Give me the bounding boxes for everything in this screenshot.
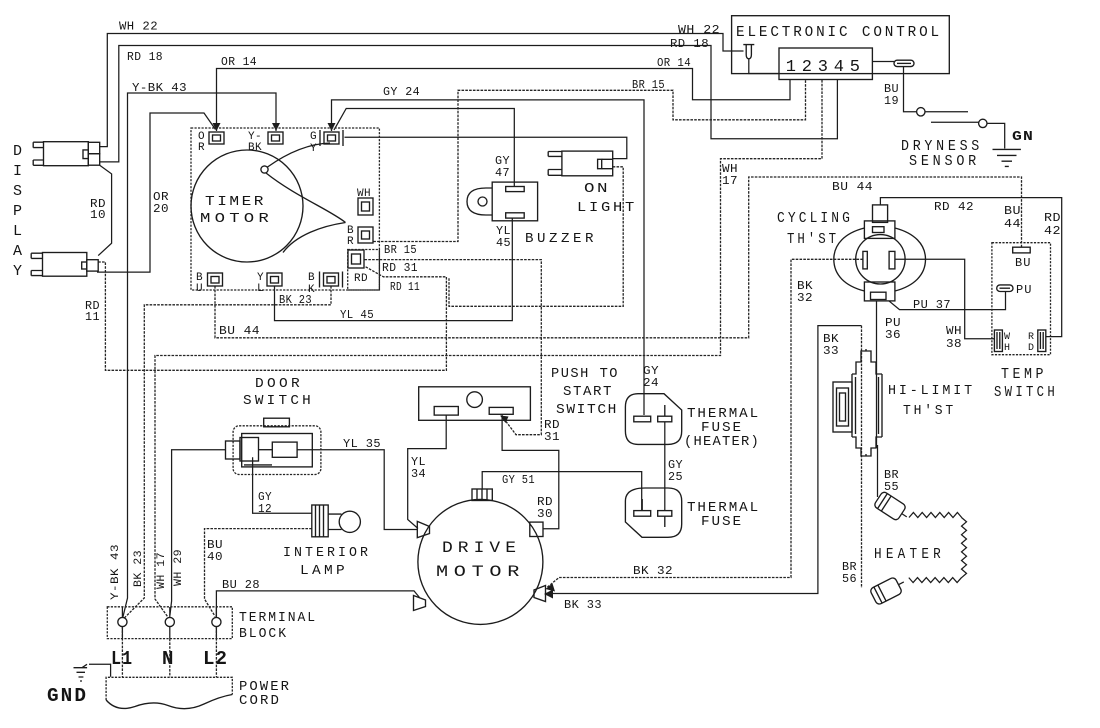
svg-text:RD 18: RD 18: [127, 51, 163, 64]
timer cam pivot: [261, 166, 268, 173]
door switch internal lever: [244, 464, 272, 466]
svg-text:R: R: [198, 142, 205, 154]
ground symbol GN: [993, 149, 1021, 166]
terminal L2 screw: [212, 617, 221, 626]
svg-text:SENSOR: SENSOR: [909, 153, 980, 170]
svg-text:TH'ST: TH'ST: [903, 403, 956, 419]
svg-text:24: 24: [643, 377, 659, 390]
wire BK33 drive motor to heater circuit: [546, 326, 862, 594]
svg-text:R: R: [347, 236, 354, 248]
wire OR14 timer O-R to electronic control terminal 1: [217, 69, 791, 132]
heater terminal cone lower BR56: [869, 574, 907, 605]
thermal fuse right terminal: [658, 511, 672, 517]
push-to-start left terminal: [434, 407, 458, 416]
wire YL35 door switch to drive motor: [297, 450, 417, 530]
wire PU36 cycling thermostat to hi-limit: [876, 301, 878, 448]
svg-text:DRIVE: DRIVE: [442, 539, 521, 557]
svg-text:TH'ST: TH'ST: [787, 231, 839, 248]
svg-text:DOOR: DOOR: [255, 376, 303, 392]
buzzer bell dome: [467, 188, 492, 215]
svg-text:4: 4: [834, 58, 845, 77]
svg-text:WH 22: WH 22: [678, 24, 720, 37]
temp switch BU terminal: [1013, 247, 1030, 253]
wire N to power cord: [169, 639, 171, 678]
wire BR55 hi-limit to heater: [877, 445, 879, 497]
svg-text:Y-BK 43: Y-BK 43: [132, 82, 187, 95]
svg-text:HI-LIMIT: HI-LIMIT: [888, 383, 975, 399]
wire RD42 cycling thermostat to temp switch: [880, 198, 1061, 337]
terminal block box: [107, 607, 232, 639]
svg-text:N: N: [162, 648, 173, 670]
thermal fuse body: [625, 488, 681, 537]
svg-text:HEATER: HEATER: [874, 546, 945, 563]
svg-text:YL 45: YL 45: [340, 309, 374, 322]
svg-text:BU: BU: [1004, 205, 1021, 218]
wire OR20 display to timer O-R terminal: [97, 113, 216, 272]
display connector lower: [43, 253, 87, 277]
svg-text:GY 51: GY 51: [502, 474, 535, 487]
svg-text:1: 1: [786, 58, 797, 77]
terminal L1 screw: [118, 617, 127, 626]
wire BU44 timer B-U to temp switch: [215, 177, 1022, 338]
svg-text:WH: WH: [357, 188, 371, 200]
push-to-start button circle: [467, 392, 483, 408]
door switch top tab: [264, 418, 290, 427]
temp switch RD terminal: [1038, 330, 1046, 352]
svg-text:THERMAL: THERMAL: [687, 501, 760, 516]
wire WH22 display to electronic control: [100, 34, 744, 147]
wire BU28 terminal block L2 to drive motor: [216, 591, 419, 617]
wire BK32 cycling thermostat to drive motor: [547, 259, 863, 587]
svg-text:INTERIOR: INTERIOR: [283, 545, 371, 561]
timer terminal RD: [348, 250, 364, 268]
svg-text:LIGHT: LIGHT: [577, 200, 637, 216]
wire BR15 timer B-R to electronic control terminal 2: [373, 80, 805, 242]
svg-text:12: 12: [258, 503, 272, 516]
wire YL34 push-to-start to drive motor: [408, 415, 447, 528]
svg-text:L2: L2: [203, 648, 228, 670]
terminal N screw: [165, 617, 174, 626]
svg-text:H: H: [1004, 343, 1010, 354]
wire GY12 door switch to interior lamp: [253, 457, 312, 513]
svg-text:2: 2: [802, 58, 813, 77]
wire BR56 heater to junction: [861, 326, 863, 588]
svg-text:BK 32: BK 32: [633, 565, 673, 578]
svg-text:19: 19: [884, 95, 899, 108]
thermal fuse heater left terminal: [634, 416, 651, 422]
svg-text:CORD: CORD: [239, 694, 281, 709]
buzzer mount hole: [478, 197, 487, 206]
svg-text:TIMER: TIMER: [205, 194, 266, 210]
cycling thermostat left contact bar: [863, 251, 867, 269]
svg-text:CYCLING: CYCLING: [777, 210, 853, 227]
svg-text:W: W: [1004, 332, 1010, 343]
arrow into Y-BK terminal: [272, 123, 280, 131]
svg-text:25: 25: [668, 471, 683, 484]
wire BU40 interior lamp to terminal block L2: [205, 529, 312, 617]
svg-text:P: P: [13, 203, 22, 220]
svg-text:33: 33: [823, 345, 839, 358]
svg-text:PU 37: PU 37: [913, 299, 951, 312]
svg-text:FUSE: FUSE: [701, 421, 743, 436]
timer terminal B-U: [208, 273, 223, 286]
svg-text:42: 42: [1044, 225, 1061, 238]
terminal lug to dryness sensor: [872, 61, 894, 63]
thermal fuse heater right terminal: [658, 416, 672, 422]
svg-text:38: 38: [946, 338, 962, 351]
svg-text:L: L: [13, 223, 22, 240]
cycling thermostat bottom housing: [864, 282, 895, 301]
arrow BK32 into motor: [546, 584, 556, 592]
arrow RD31 into push-to-start: [500, 416, 509, 424]
display connector upper pin block: [88, 142, 99, 153]
svg-text:OR 14: OR 14: [657, 57, 691, 70]
wire GY51 drive motor to thermal fuse: [482, 472, 642, 511]
door switch outer housing: [233, 426, 321, 475]
svg-text:FUSE: FUSE: [701, 515, 743, 530]
svg-text:SWITCH: SWITCH: [556, 403, 618, 418]
svg-text:BK 23: BK 23: [133, 550, 145, 587]
svg-text:PUSH TO: PUSH TO: [551, 367, 619, 382]
svg-text:TEMP: TEMP: [1001, 366, 1047, 383]
timer cam curves: [268, 143, 331, 167]
drive motor left upper terminal YL: [417, 521, 429, 537]
svg-text:BU 28: BU 28: [222, 579, 260, 592]
temp switch WH terminal: [994, 330, 1002, 352]
svg-text:MOTOR: MOTOR: [200, 211, 273, 227]
svg-text:R: R: [1028, 332, 1034, 343]
hi-limit thermostat body steps: [852, 349, 882, 456]
wire RD10 between display connectors: [98, 165, 111, 255]
wire L2 to power cord: [215, 627, 217, 678]
svg-text:U: U: [196, 283, 203, 295]
svg-text:11: 11: [85, 311, 100, 324]
svg-text:D: D: [1028, 343, 1034, 354]
svg-text:44: 44: [1004, 218, 1021, 231]
svg-text:I: I: [13, 163, 22, 180]
svg-text:36: 36: [885, 329, 901, 342]
svg-text:ON: ON: [584, 181, 610, 197]
svg-text:32: 32: [797, 292, 813, 305]
svg-text:GY 24: GY 24: [383, 86, 420, 99]
interior lamp neck: [328, 514, 341, 529]
arrow BK33 into motor: [544, 590, 553, 599]
wire dryness sensor to ground: [987, 123, 1005, 148]
svg-text:(HEATER): (HEATER): [684, 435, 760, 450]
svg-text:POWER: POWER: [239, 680, 291, 695]
temp switch box: [992, 243, 1051, 355]
heater element zigzag: [909, 513, 967, 583]
timer terminal Y-BK: [268, 132, 283, 144]
svg-text:BK: BK: [248, 142, 262, 154]
dryness sensor moving contact line: [931, 121, 979, 123]
wire RD11 display to timer RD terminal: [98, 262, 446, 370]
svg-text:WH: WH: [946, 325, 962, 338]
wire RD11 branch to on-light: [449, 167, 623, 306]
temp switch PU terminal: [997, 285, 1013, 292]
power cord body: [106, 677, 232, 700]
svg-text:10: 10: [90, 209, 106, 222]
thermal fuse left terminal: [634, 511, 651, 517]
svg-text:OR 14: OR 14: [221, 56, 257, 69]
timer terminal G-Y: [324, 132, 339, 144]
on light right pin: [598, 159, 602, 168]
fuse symbol on WH22 input: [743, 45, 754, 59]
svg-text:RD 31: RD 31: [382, 262, 418, 275]
wire WH38 cycling thermostat to temp switch: [895, 259, 995, 338]
svg-text:RD 11: RD 11: [390, 281, 420, 294]
svg-text:3: 3: [818, 58, 829, 77]
wire GY47 timer G-Y to buzzer: [334, 109, 514, 187]
on light body: [562, 151, 613, 176]
interior lamp base: [312, 505, 328, 537]
ground symbol GND: [74, 668, 88, 681]
timer terminal B-R: [358, 227, 373, 243]
svg-text:WH 29: WH 29: [173, 549, 185, 586]
svg-text:S: S: [13, 183, 22, 200]
timer terminal O-R: [209, 132, 224, 144]
arrow into O-R terminal: [213, 123, 221, 131]
svg-text:D: D: [13, 143, 22, 160]
wire RD18 display to electronic control terminal 4: [100, 46, 838, 162]
push-to-start right terminal: [489, 407, 513, 414]
svg-text:Y: Y: [13, 263, 22, 280]
drive motor circle: [418, 499, 543, 624]
svg-text:START: START: [563, 385, 613, 400]
svg-text:47: 47: [495, 167, 510, 180]
hi-limit thermostat heat sink plates: [833, 382, 852, 432]
svg-text:BR 15: BR 15: [632, 79, 665, 92]
cycling thermostat top housing: [864, 221, 895, 239]
dryness sensor contact 2: [979, 119, 987, 127]
svg-text:5: 5: [850, 58, 861, 77]
buzzer terminal YL45: [506, 213, 525, 218]
svg-text:L: L: [257, 283, 264, 295]
svg-text:WH 17: WH 17: [156, 552, 168, 589]
svg-text:34: 34: [411, 468, 426, 481]
thermal fuse heater body: [625, 394, 681, 445]
display connector upper: [44, 142, 89, 166]
svg-text:SWITCH: SWITCH: [243, 393, 314, 409]
heater terminal cone upper BR55: [873, 491, 911, 525]
svg-text:RD: RD: [1044, 212, 1061, 225]
timer terminal WH: [358, 198, 373, 215]
timer box: [191, 128, 379, 290]
drive motor left lower terminal BU28: [414, 596, 426, 611]
svg-text:A: A: [13, 243, 22, 260]
svg-text:YL 35: YL 35: [343, 438, 381, 451]
door switch plunger inner: [240, 438, 259, 462]
svg-text:GN: GN: [1012, 129, 1034, 145]
door switch inner body: [242, 434, 313, 467]
door switch contact block: [272, 442, 297, 457]
svg-text:LAMP: LAMP: [300, 563, 348, 579]
wire BU19 electronic control to dryness sensor: [904, 67, 917, 112]
svg-text:RD 42: RD 42: [934, 201, 974, 214]
wire L1 to power cord: [121, 627, 123, 678]
wire RD30 push-to-start to drive motor: [502, 414, 559, 528]
wire WH17 electronic control terminal 3 to terminal block N: [155, 80, 822, 618]
cycling thermostat disc: [856, 235, 905, 284]
svg-text:TERMINAL: TERMINAL: [239, 611, 317, 626]
svg-text:30: 30: [537, 508, 553, 521]
svg-text:THERMAL: THERMAL: [687, 407, 760, 422]
svg-text:MOTOR: MOTOR: [436, 563, 525, 581]
power cord wavy end: [106, 695, 232, 709]
svg-text:SWITCH: SWITCH: [994, 384, 1058, 401]
svg-text:ELECTRONIC CONTROL: ELECTRONIC CONTROL: [736, 24, 942, 41]
electronic control terminal strip 1 2 3 4 5: [779, 48, 872, 80]
svg-text:20: 20: [153, 203, 169, 216]
svg-text:BLOCK: BLOCK: [239, 627, 288, 642]
dryness sensor fixed contact line: [925, 111, 968, 113]
svg-text:BU: BU: [1015, 256, 1031, 270]
cycling thermostat right contact bar: [889, 251, 895, 269]
display connector lower pin block: [87, 260, 98, 271]
drive motor right upper terminal RD30: [530, 522, 543, 536]
svg-text:PU: PU: [1016, 283, 1032, 297]
timer motor circle: [191, 150, 303, 262]
svg-text:BU 44: BU 44: [219, 325, 260, 338]
door switch plunger stem: [259, 449, 273, 451]
buzzer body: [492, 182, 537, 221]
wire GY25 thermal fuse heater to thermal fuse: [664, 422, 666, 511]
svg-text:31: 31: [544, 431, 560, 444]
svg-text:45: 45: [496, 237, 511, 250]
svg-text:G: G: [310, 131, 317, 143]
wire RD31 timer RD to push-to-start switch: [365, 260, 542, 435]
wire ground to power cord: [89, 664, 111, 677]
wire GY24 timer G-Y to thermal fuse heater: [332, 100, 645, 415]
svg-text:BUZZER: BUZZER: [525, 231, 597, 247]
svg-text:17: 17: [722, 175, 738, 188]
svg-text:BK 33: BK 33: [564, 599, 602, 612]
svg-text:Y-BK 43: Y-BK 43: [110, 544, 122, 600]
wire G-Y to on-light: [345, 137, 627, 158]
arrow into G-Y terminal: [328, 123, 336, 131]
timer terminal Y-L: [267, 273, 282, 286]
wire WH29 door switch to terminal block N: [170, 450, 226, 616]
svg-text:BU 44: BU 44: [832, 181, 873, 194]
door switch plunger outer: [226, 441, 241, 459]
svg-text:WH 22: WH 22: [119, 21, 158, 34]
svg-text:RD 18: RD 18: [670, 38, 709, 51]
push-to-start switch box: [419, 387, 531, 421]
svg-text:B: B: [308, 272, 315, 284]
drive motor right lower terminal BK: [534, 586, 546, 602]
svg-text:RD: RD: [354, 273, 368, 285]
interior lamp bulb: [339, 511, 360, 532]
svg-text:K: K: [308, 284, 315, 296]
wire BK23 timer B-K to terminal block L1: [124, 286, 331, 619]
drive motor top terminal GY51: [472, 489, 492, 501]
svg-text:40: 40: [207, 551, 223, 564]
wire Y-BK43 timer to terminal block L1: [123, 93, 276, 618]
on light left prongs: [548, 152, 562, 176]
svg-text:55: 55: [884, 481, 899, 494]
buzzer terminal GY47: [506, 187, 525, 192]
svg-text:BR 15: BR 15: [384, 244, 417, 257]
dryness sensor contact 1: [917, 108, 925, 116]
svg-text:Y: Y: [310, 143, 317, 155]
electronic control box: [732, 16, 950, 74]
wire PU37 cycling thermostat to temp switch: [889, 292, 1006, 310]
wire YL45 timer Y-L to buzzer: [275, 218, 513, 321]
svg-text:56: 56: [842, 573, 857, 586]
timer terminal B-K: [324, 273, 339, 286]
svg-text:GND: GND: [47, 685, 88, 707]
cycling thermostat lens body: [834, 228, 865, 291]
